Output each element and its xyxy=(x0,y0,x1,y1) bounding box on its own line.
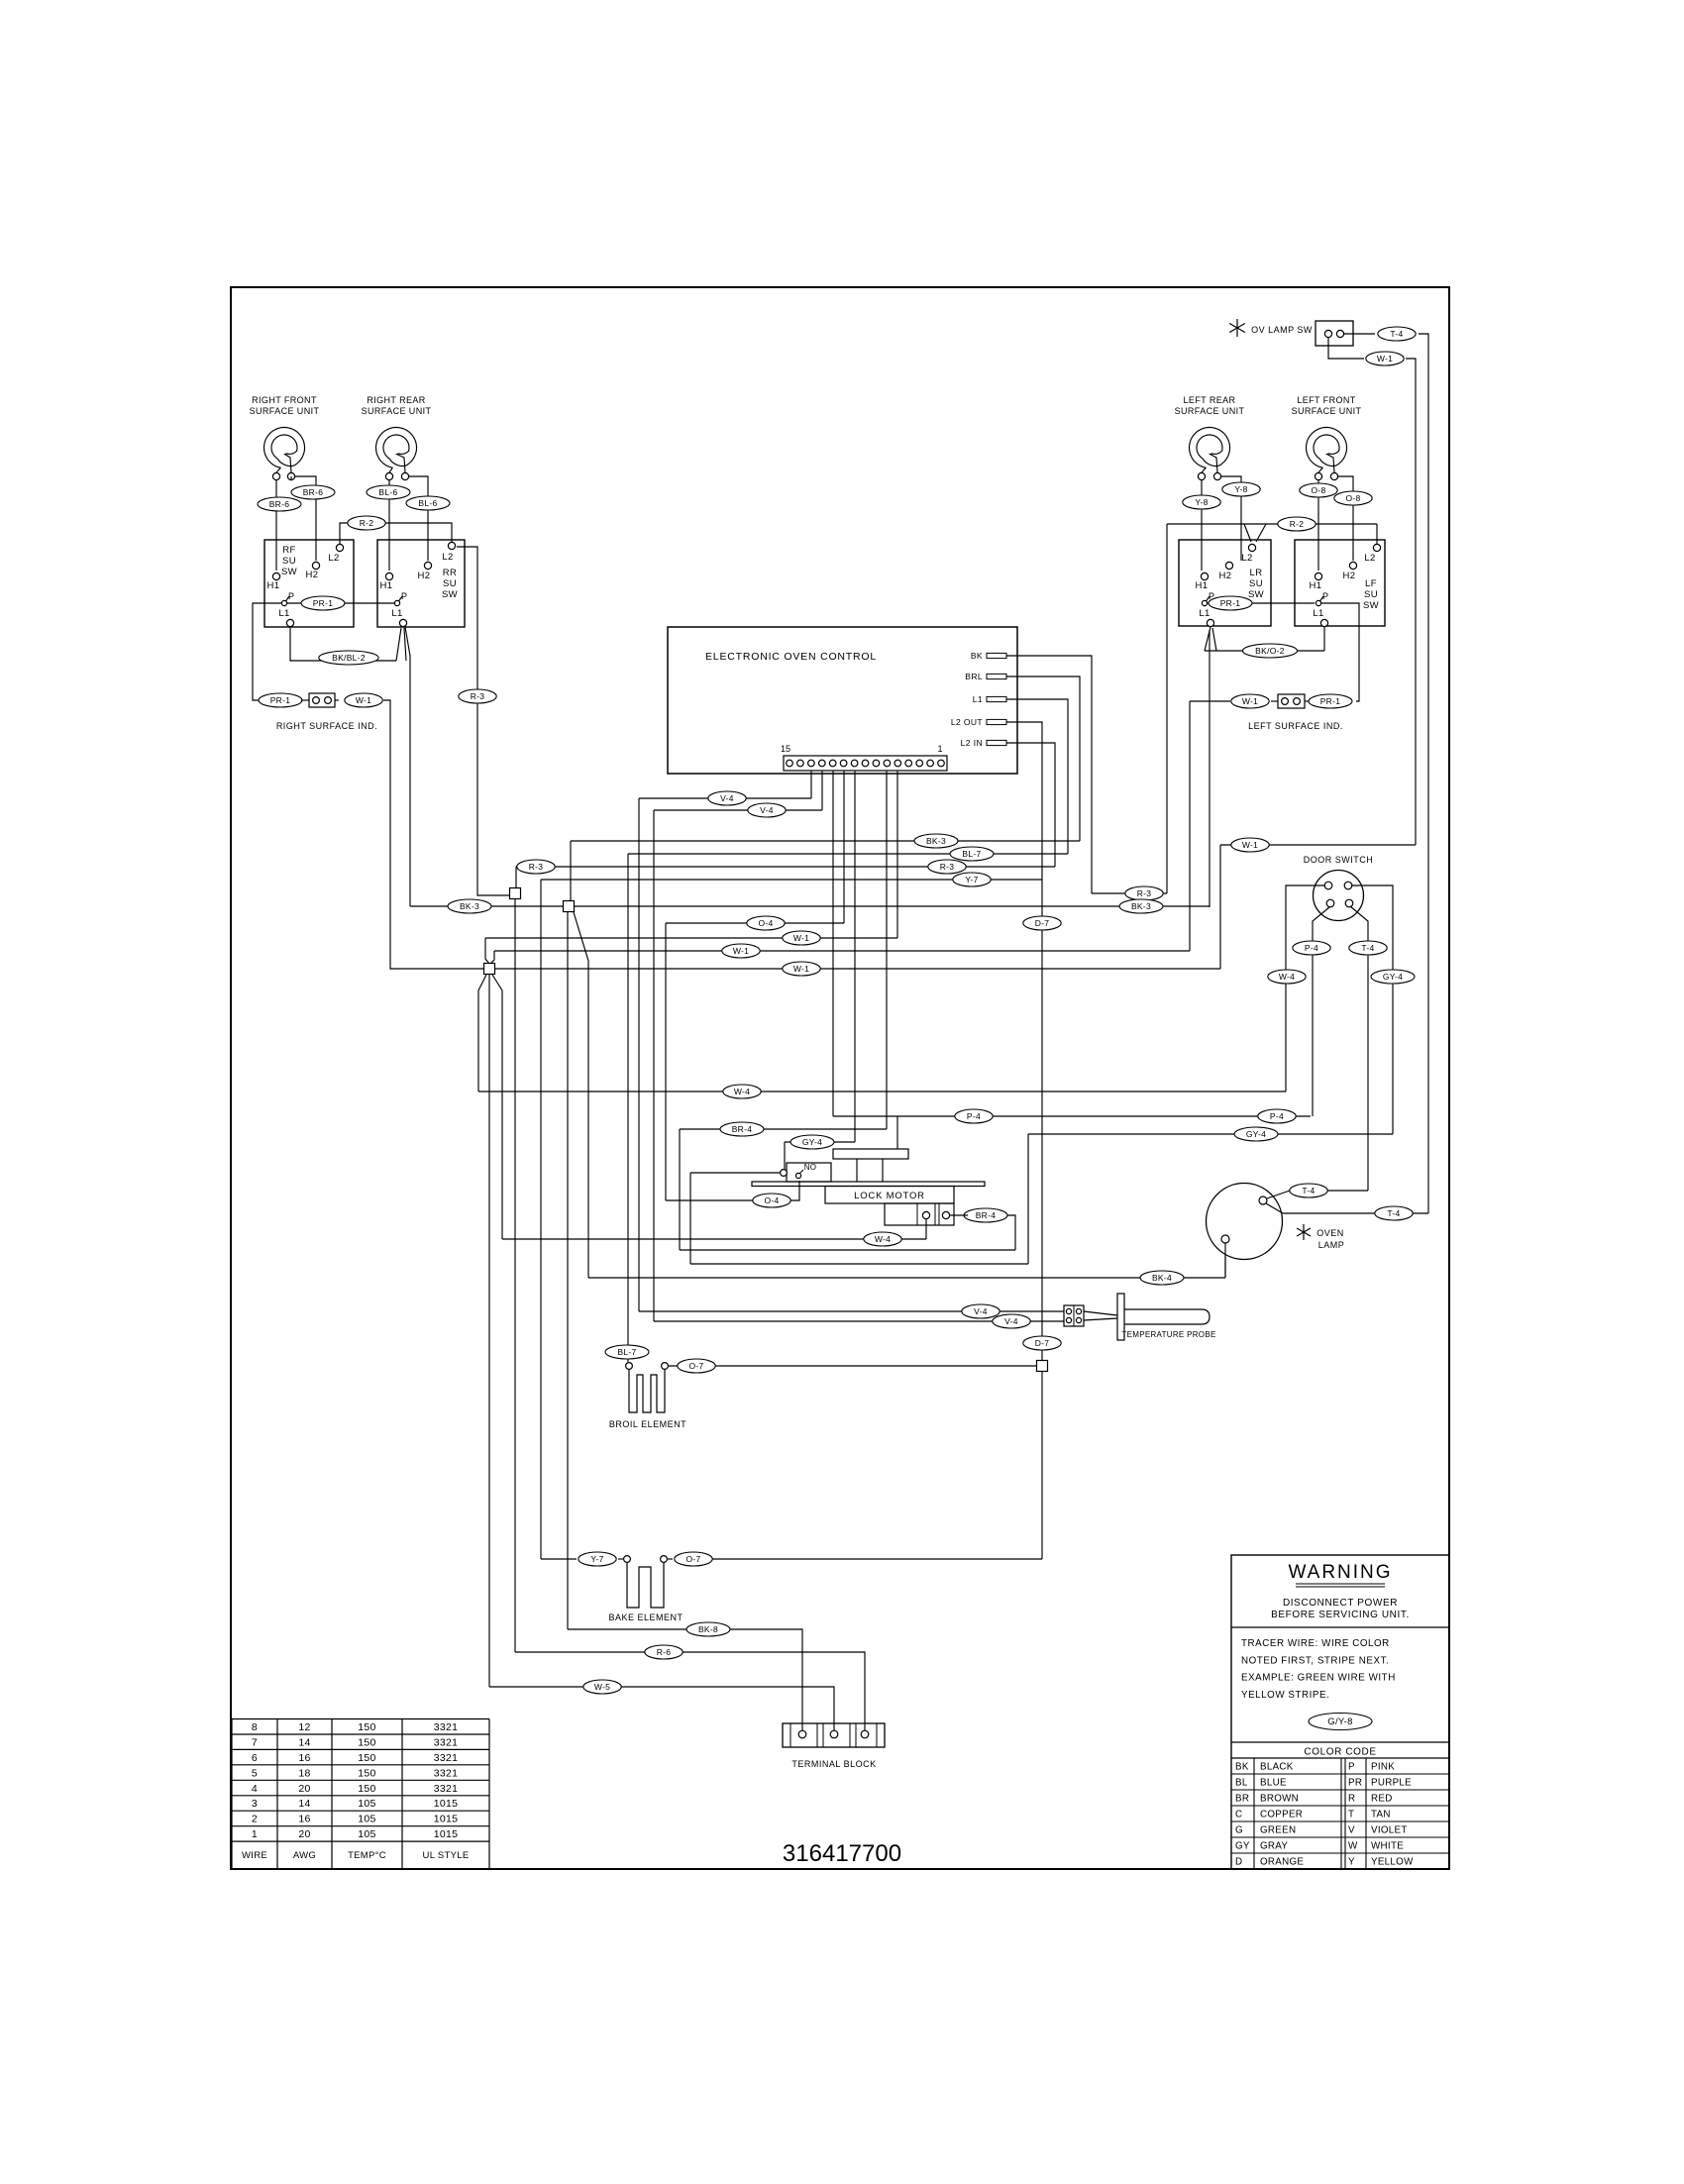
svg-text:BROIL ELEMENT: BROIL ELEMENT xyxy=(609,1419,686,1429)
svg-text:TEMP°C: TEMP°C xyxy=(348,1850,386,1861)
svg-text:W-4: W-4 xyxy=(875,1234,891,1244)
svg-text:H1: H1 xyxy=(1196,580,1209,591)
svg-text:T: T xyxy=(1348,1810,1354,1820)
svg-text:W-1: W-1 xyxy=(1377,354,1393,364)
svg-text:12: 12 xyxy=(298,1721,310,1733)
svg-text:EXAMPLE: GREEN WIRE WITH: EXAMPLE: GREEN WIRE WITH xyxy=(1241,1673,1396,1684)
svg-text:15: 15 xyxy=(781,744,790,754)
svg-text:BEFORE SERVICING UNIT.: BEFORE SERVICING UNIT. xyxy=(1271,1610,1410,1620)
svg-text:BLACK: BLACK xyxy=(1260,1762,1294,1773)
svg-text:RIGHT SURFACE IND.: RIGHT SURFACE IND. xyxy=(276,721,377,731)
svg-text:P-4: P-4 xyxy=(1270,1111,1284,1121)
svg-text:BR-6: BR-6 xyxy=(303,487,324,497)
svg-text:BK-3: BK-3 xyxy=(1131,901,1151,911)
svg-text:W-4: W-4 xyxy=(734,1087,750,1096)
svg-text:SW: SW xyxy=(281,567,297,577)
svg-text:BLUE: BLUE xyxy=(1260,1778,1287,1789)
svg-text:20: 20 xyxy=(298,1828,310,1840)
svg-text:BK: BK xyxy=(971,651,983,661)
svg-text:Y-8: Y-8 xyxy=(1195,497,1208,507)
svg-text:BK/O-2: BK/O-2 xyxy=(1255,646,1285,656)
svg-text:16: 16 xyxy=(298,1814,310,1825)
svg-text:G: G xyxy=(1235,1825,1243,1836)
svg-text:105: 105 xyxy=(358,1798,375,1810)
svg-text:L1: L1 xyxy=(1199,608,1210,619)
svg-text:BL: BL xyxy=(1235,1778,1248,1789)
svg-text:BL-7: BL-7 xyxy=(617,1347,636,1357)
svg-text:BAKE ELEMENT: BAKE ELEMENT xyxy=(608,1612,683,1622)
svg-text:150: 150 xyxy=(358,1721,375,1733)
svg-text:DISCONNECT POWER: DISCONNECT POWER xyxy=(1283,1598,1398,1609)
svg-text:14: 14 xyxy=(298,1798,310,1810)
svg-text:P-4: P-4 xyxy=(967,1111,981,1121)
svg-text:VIOLET: VIOLET xyxy=(1371,1825,1408,1836)
svg-text:GY-4: GY-4 xyxy=(1246,1129,1266,1139)
svg-text:3321: 3321 xyxy=(434,1783,459,1795)
svg-text:P: P xyxy=(401,591,407,601)
svg-text:150: 150 xyxy=(358,1752,375,1764)
svg-text:16: 16 xyxy=(298,1752,310,1764)
svg-text:RED: RED xyxy=(1371,1794,1393,1805)
svg-text:P: P xyxy=(1348,1762,1355,1773)
svg-text:105: 105 xyxy=(358,1814,375,1825)
svg-text:BK-3: BK-3 xyxy=(460,901,479,911)
svg-text:OV LAMP SW: OV LAMP SW xyxy=(1251,325,1313,335)
svg-text:V: V xyxy=(1348,1825,1355,1836)
svg-text:LEFT FRONT: LEFT FRONT xyxy=(1297,395,1355,405)
svg-text:LEFT REAR: LEFT REAR xyxy=(1184,395,1236,405)
svg-text:BK/BL-2: BK/BL-2 xyxy=(332,653,366,663)
svg-text:20: 20 xyxy=(298,1783,310,1795)
svg-text:8: 8 xyxy=(252,1721,258,1733)
svg-text:SURFACE UNIT: SURFACE UNIT xyxy=(250,406,320,416)
svg-text:WARNING: WARNING xyxy=(1288,1562,1392,1583)
svg-text:BR-4: BR-4 xyxy=(732,1124,753,1134)
svg-text:BL-6: BL-6 xyxy=(378,487,397,497)
svg-text:BK-4: BK-4 xyxy=(1152,1273,1172,1283)
svg-text:V-4: V-4 xyxy=(760,805,774,815)
svg-text:RIGHT FRONT: RIGHT FRONT xyxy=(252,395,317,405)
svg-text:316417700: 316417700 xyxy=(783,1840,901,1867)
svg-text:L2: L2 xyxy=(442,552,453,563)
svg-text:W-1: W-1 xyxy=(793,933,809,943)
svg-text:PR-1: PR-1 xyxy=(1220,598,1241,608)
svg-text:4: 4 xyxy=(252,1783,258,1795)
svg-text:L1: L1 xyxy=(278,608,289,619)
svg-text:LEFT SURFACE IND.: LEFT SURFACE IND. xyxy=(1248,721,1343,731)
svg-text:SURFACE UNIT: SURFACE UNIT xyxy=(1292,406,1362,416)
svg-text:SU: SU xyxy=(1364,589,1378,600)
svg-text:L1: L1 xyxy=(1313,608,1323,619)
svg-text:O-7: O-7 xyxy=(685,1554,700,1564)
svg-text:V-4: V-4 xyxy=(1004,1316,1018,1326)
svg-text:3321: 3321 xyxy=(434,1767,459,1779)
svg-text:R-3: R-3 xyxy=(529,862,544,872)
svg-text:150: 150 xyxy=(358,1783,375,1795)
svg-text:Y-7: Y-7 xyxy=(590,1554,603,1564)
svg-text:H1: H1 xyxy=(267,580,280,591)
svg-text:SURFACE UNIT: SURFACE UNIT xyxy=(1175,406,1245,416)
svg-text:PR-1: PR-1 xyxy=(313,598,334,608)
svg-text:YELLOW STRIPE.: YELLOW STRIPE. xyxy=(1241,1690,1329,1701)
svg-text:LAMP: LAMP xyxy=(1318,1240,1345,1250)
svg-text:R-2: R-2 xyxy=(1290,519,1305,529)
svg-text:BR: BR xyxy=(1235,1794,1249,1805)
svg-text:H2: H2 xyxy=(1219,571,1232,581)
svg-text:O-4: O-4 xyxy=(758,918,773,928)
svg-text:D-7: D-7 xyxy=(1035,1338,1050,1348)
svg-text:1015: 1015 xyxy=(434,1828,459,1840)
svg-text:3321: 3321 xyxy=(434,1721,459,1733)
svg-text:P: P xyxy=(1322,591,1328,601)
svg-text:3: 3 xyxy=(252,1798,258,1810)
svg-text:P-4: P-4 xyxy=(1305,943,1318,953)
svg-text:L2: L2 xyxy=(1364,553,1375,564)
svg-text:WIRE: WIRE xyxy=(242,1850,267,1861)
svg-text:RIGHT REAR: RIGHT REAR xyxy=(367,395,425,405)
svg-text:P: P xyxy=(288,591,294,601)
svg-text:BK-8: BK-8 xyxy=(698,1624,718,1634)
svg-text:COLOR CODE: COLOR CODE xyxy=(1304,1747,1376,1758)
svg-text:T-4: T-4 xyxy=(1390,329,1403,339)
svg-text:BR-6: BR-6 xyxy=(269,499,290,509)
svg-text:BL-6: BL-6 xyxy=(418,498,437,508)
svg-text:W-1: W-1 xyxy=(793,964,809,974)
svg-text:PR: PR xyxy=(1348,1778,1362,1789)
svg-text:L2: L2 xyxy=(328,553,339,564)
svg-text:2: 2 xyxy=(252,1814,258,1825)
svg-text:WHITE: WHITE xyxy=(1371,1841,1404,1852)
svg-text:LR: LR xyxy=(1250,568,1263,578)
svg-text:H1: H1 xyxy=(1310,580,1322,591)
svg-text:7: 7 xyxy=(252,1737,258,1749)
svg-text:O-4: O-4 xyxy=(764,1196,779,1205)
svg-text:L2 IN: L2 IN xyxy=(961,738,983,748)
svg-text:TEMPERATURE PROBE: TEMPERATURE PROBE xyxy=(1121,1330,1215,1339)
svg-text:105: 105 xyxy=(358,1828,375,1840)
svg-text:R-3: R-3 xyxy=(940,862,955,872)
svg-text:SU: SU xyxy=(1249,578,1263,589)
svg-text:R: R xyxy=(1348,1794,1355,1805)
svg-text:SW: SW xyxy=(442,589,458,600)
svg-text:150: 150 xyxy=(358,1767,375,1779)
svg-text:T-4: T-4 xyxy=(1302,1186,1315,1196)
svg-text:BK: BK xyxy=(1235,1762,1249,1773)
svg-text:W-1: W-1 xyxy=(733,946,749,956)
svg-text:D: D xyxy=(1235,1857,1242,1868)
svg-text:GY-4: GY-4 xyxy=(802,1137,822,1147)
svg-text:H2: H2 xyxy=(418,571,431,581)
svg-text:W-1: W-1 xyxy=(1242,696,1258,706)
svg-text:1: 1 xyxy=(937,744,942,754)
svg-text:TERMINAL BLOCK: TERMINAL BLOCK xyxy=(791,1759,876,1769)
svg-text:V-4: V-4 xyxy=(720,793,734,803)
svg-text:O-8: O-8 xyxy=(1345,493,1360,503)
svg-text:1015: 1015 xyxy=(434,1798,459,1810)
svg-text:D-7: D-7 xyxy=(1035,918,1050,928)
svg-text:ELECTRONIC OVEN CONTROL: ELECTRONIC OVEN CONTROL xyxy=(705,651,877,663)
svg-text:H2: H2 xyxy=(1343,571,1356,581)
svg-text:3321: 3321 xyxy=(434,1752,459,1764)
svg-text:YELLOW: YELLOW xyxy=(1371,1857,1414,1868)
svg-text:Y: Y xyxy=(1348,1857,1355,1868)
svg-text:PURPLE: PURPLE xyxy=(1371,1778,1412,1789)
svg-text:OVEN: OVEN xyxy=(1316,1228,1344,1238)
svg-text:GY-4: GY-4 xyxy=(1383,972,1403,982)
svg-text:AWG: AWG xyxy=(293,1850,316,1861)
svg-text:O-8: O-8 xyxy=(1311,485,1325,495)
svg-text:O-7: O-7 xyxy=(688,1361,703,1371)
svg-text:W: W xyxy=(1348,1841,1358,1852)
svg-text:PR-1: PR-1 xyxy=(1320,696,1341,706)
svg-text:L1: L1 xyxy=(973,694,983,704)
svg-text:UL STYLE: UL STYLE xyxy=(423,1850,470,1861)
svg-text:L2: L2 xyxy=(1241,553,1252,564)
svg-text:W-1: W-1 xyxy=(1242,840,1258,850)
svg-text:NOTED FIRST, STRIPE NEXT.: NOTED FIRST, STRIPE NEXT. xyxy=(1241,1655,1389,1666)
svg-text:GRAY: GRAY xyxy=(1260,1841,1288,1852)
svg-text:SU: SU xyxy=(443,578,457,589)
svg-text:18: 18 xyxy=(298,1767,310,1779)
svg-text:R-2: R-2 xyxy=(360,518,374,528)
svg-text:6: 6 xyxy=(252,1752,258,1764)
svg-text:GREEN: GREEN xyxy=(1260,1825,1296,1836)
svg-text:R-3: R-3 xyxy=(471,691,485,701)
svg-text:14: 14 xyxy=(298,1737,310,1749)
svg-text:LF: LF xyxy=(1365,578,1377,589)
svg-text:PR-1: PR-1 xyxy=(270,695,291,705)
svg-text:SW: SW xyxy=(1248,589,1264,600)
svg-text:W-5: W-5 xyxy=(594,1682,610,1692)
svg-text:3321: 3321 xyxy=(434,1737,459,1749)
svg-text:COPPER: COPPER xyxy=(1260,1810,1303,1820)
svg-text:TRACER WIRE: WIRE COLOR: TRACER WIRE: WIRE COLOR xyxy=(1241,1638,1390,1649)
svg-text:C: C xyxy=(1235,1810,1242,1820)
svg-text:SW: SW xyxy=(1363,600,1379,611)
svg-text:BRL: BRL xyxy=(965,672,983,681)
svg-text:DOOR SWITCH: DOOR SWITCH xyxy=(1304,855,1374,865)
svg-text:BL-7: BL-7 xyxy=(962,849,981,859)
svg-text:V-4: V-4 xyxy=(974,1306,988,1316)
svg-text:L2 OUT: L2 OUT xyxy=(951,717,983,727)
svg-text:Y-8: Y-8 xyxy=(1234,484,1247,494)
svg-text:LOCK MOTOR: LOCK MOTOR xyxy=(854,1191,925,1201)
svg-text:SURFACE UNIT: SURFACE UNIT xyxy=(362,406,432,416)
svg-text:RR: RR xyxy=(443,568,458,578)
svg-text:W-1: W-1 xyxy=(356,695,371,705)
svg-text:R-6: R-6 xyxy=(657,1647,672,1657)
svg-text:H1: H1 xyxy=(380,580,393,591)
svg-text:W-4: W-4 xyxy=(1279,972,1295,982)
svg-text:Y-7: Y-7 xyxy=(965,875,978,884)
svg-text:150: 150 xyxy=(358,1737,375,1749)
svg-text:1015: 1015 xyxy=(434,1814,459,1825)
svg-text:NO: NO xyxy=(804,1163,816,1172)
svg-text:TAN: TAN xyxy=(1371,1810,1391,1820)
svg-text:T-4: T-4 xyxy=(1387,1208,1400,1218)
svg-text:SU: SU xyxy=(282,556,296,567)
svg-text:G/Y-8: G/Y-8 xyxy=(1327,1716,1352,1727)
svg-text:ORANGE: ORANGE xyxy=(1260,1857,1304,1868)
svg-text:5: 5 xyxy=(252,1767,258,1779)
svg-text:PINK: PINK xyxy=(1371,1762,1395,1773)
svg-text:L1: L1 xyxy=(391,608,402,619)
svg-text:H2: H2 xyxy=(306,570,319,580)
svg-text:BROWN: BROWN xyxy=(1260,1794,1299,1805)
svg-text:BR-4: BR-4 xyxy=(976,1210,997,1220)
svg-text:BK-3: BK-3 xyxy=(926,836,946,846)
svg-text:R-3: R-3 xyxy=(1137,888,1152,898)
svg-text:T-4: T-4 xyxy=(1361,943,1374,953)
svg-text:GY: GY xyxy=(1235,1841,1250,1852)
svg-text:1: 1 xyxy=(252,1828,258,1840)
svg-text:RF: RF xyxy=(282,545,295,556)
